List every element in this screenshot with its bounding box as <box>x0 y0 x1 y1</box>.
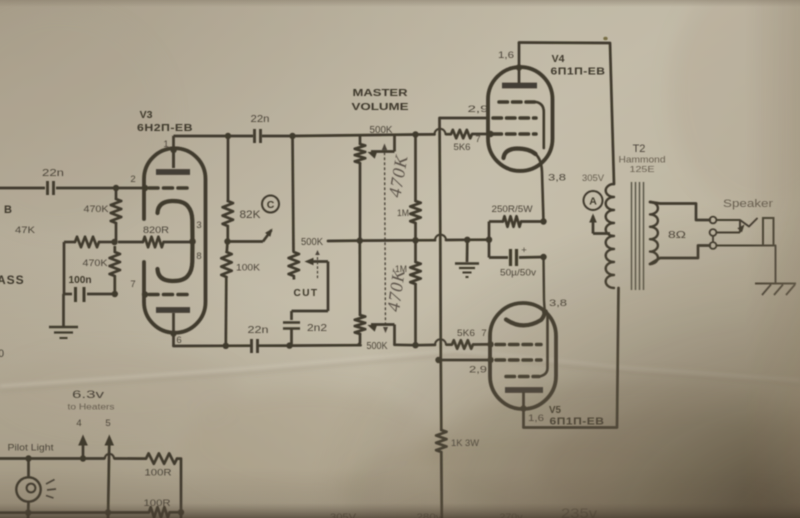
node 100R corner junction <box>178 509 184 515</box>
resistor R 1M lower <box>414 240 417 262</box>
wire V3 plate pin1 to top rail <box>172 136 175 168</box>
wire terminal mid-bottom link <box>712 236 714 242</box>
pilot light symbol <box>16 477 40 501</box>
wire V4 screen 2,9 <box>440 117 490 120</box>
transformer T2 secondary winding <box>650 202 658 264</box>
capacitor C 22n input <box>46 181 49 195</box>
wire mid rail <box>328 239 435 243</box>
wire ground leg 100n <box>62 294 65 326</box>
resistor R 470K lower <box>110 252 120 276</box>
wire bottom terminal to sleeve <box>717 245 764 247</box>
tube V5 cathode arc <box>506 312 545 326</box>
tube V4 envelope <box>488 67 553 171</box>
resistor R 1M upper <box>414 135 417 202</box>
ground symbol mid rail <box>466 240 469 262</box>
node screen line V5 <box>435 357 441 363</box>
wire secondary bottom to terminal <box>650 246 710 265</box>
tube V3 lower plate bar <box>156 307 190 313</box>
heater arrow 4 <box>82 441 85 459</box>
node pin 2 on envelope <box>142 185 148 191</box>
wire V5 bottom to transformer <box>524 288 619 428</box>
node mid rail pot column <box>357 237 363 243</box>
wire bottom rail left <box>174 344 251 347</box>
test point C arrow wire <box>228 240 264 243</box>
wire heater rail <box>0 457 105 460</box>
node pilot bottom junction <box>25 510 31 516</box>
node 82K top <box>225 133 231 139</box>
node top rail 1M branch <box>412 131 418 137</box>
tube V3 envelope <box>144 148 206 332</box>
wire hop over screen line top rail <box>434 129 445 135</box>
tube V3 upper grid dashes <box>149 186 191 190</box>
node bottom rail 100K <box>223 343 229 349</box>
node pin7 junction <box>112 291 118 297</box>
wire bottom rail to 5K6 lower <box>446 343 452 346</box>
resistor R 1K 3W <box>436 430 446 452</box>
wire 47K down leg <box>63 242 66 294</box>
tube V5 envelope <box>490 303 556 409</box>
node V3 pin1 on envelope <box>170 147 176 153</box>
wire V3 pin6 to bottom rail <box>172 313 175 346</box>
tube V5 grid dashes g3 <box>506 375 539 379</box>
wire bottom heater return <box>0 511 149 514</box>
tube V3 lower grid dashes <box>149 293 191 297</box>
ground symbol input stage <box>49 326 78 328</box>
wire V4 top rail to transformer <box>519 43 614 185</box>
speaker jack tip contact <box>717 219 741 221</box>
resistor R 5K6 V5 <box>452 340 473 348</box>
wire CUT branch from top rail <box>293 136 294 252</box>
node cathode column upper <box>540 218 546 224</box>
node pin2 junction <box>113 185 119 191</box>
node V4 pin7 <box>487 131 493 137</box>
tube V5 plate bar <box>505 387 543 393</box>
wire top rail to master volume <box>262 135 293 138</box>
transformer T2 primary winding <box>606 184 614 288</box>
heater arrow 5 <box>108 441 109 518</box>
resistor R 100R upper <box>146 453 177 463</box>
speaker jack sleeve <box>763 218 774 246</box>
node mid rail RC <box>486 237 492 243</box>
test point A arrow <box>592 216 595 234</box>
wire V4 plate to top corner <box>518 43 521 84</box>
resistor R 470K upper grid leak <box>115 188 118 199</box>
wire top rail to 5K6 <box>446 133 452 136</box>
node V5 pin7 <box>487 341 493 347</box>
node mid rail ground <box>464 237 470 243</box>
node V5 pin 2-9 <box>487 357 493 363</box>
capacitor C 2n2 <box>292 310 329 313</box>
wire hop over screen line mid rail <box>435 235 446 241</box>
pot2 wiper arrow <box>371 323 395 326</box>
capacitor C 22n bottom <box>250 339 253 353</box>
resistor R 82K plate load <box>227 136 230 201</box>
gang dotted line <box>385 148 386 330</box>
wire V5 plate pin to bottom wire <box>522 392 525 428</box>
tube V4 plate bar <box>502 83 537 89</box>
node top rail CUT branch <box>289 133 295 139</box>
node heater lower junction <box>105 509 111 515</box>
tube V4 grid dashes g1 <box>493 132 536 136</box>
wire bottom rail right <box>395 343 436 346</box>
node 1M mid rail <box>412 237 418 243</box>
tube V4 cathode exit <box>536 154 544 222</box>
potentiometer 500K CUT <box>289 252 299 276</box>
ground symbol speaker jack <box>755 283 796 285</box>
test point C circle <box>262 196 279 213</box>
potentiometer 500K master volume lower <box>358 241 361 315</box>
tube V3 upper plate bar <box>156 169 190 175</box>
tube V3 upper cathode arc <box>158 201 193 240</box>
tube V5 grid dashes g2 <box>496 358 541 362</box>
node V3 pin6 on envelope <box>170 330 176 336</box>
node pin 7 on envelope <box>142 291 148 297</box>
resistor R 47K feedback <box>99 241 115 244</box>
tube V4 grid dashes g3 <box>499 100 536 104</box>
resistor R 5K6 V4 <box>451 130 472 138</box>
pot1 wiper arrow <box>371 150 395 153</box>
wire bottom rail mid <box>259 344 360 347</box>
terminal circle bottom <box>710 242 717 249</box>
CUT wiper arrow <box>311 260 328 263</box>
node bottom rail 2n2 <box>286 342 292 348</box>
node 82K-100K junction <box>224 238 230 244</box>
transformer T2 core <box>631 182 633 290</box>
test point A circle <box>584 191 603 210</box>
node bottom rail 1M <box>412 342 418 348</box>
node cathode column lower <box>540 254 546 260</box>
terminal circle top <box>710 217 717 224</box>
jack insertion arrow <box>737 225 744 233</box>
node cathode junction 3-8 <box>189 238 196 245</box>
resistor R 100R lower <box>149 507 170 517</box>
capacitor C 22n interstage top <box>253 129 256 143</box>
node heater arrow4 <box>80 455 86 461</box>
capacitor C 50u/50v <box>488 240 491 258</box>
resistor R 820R cathode bias <box>118 241 143 244</box>
tube V5 g3 leg <box>539 315 548 377</box>
wire hop over screen line bottom rail <box>435 339 446 345</box>
potentiometer 500K master volume upper <box>359 136 362 144</box>
paper crease main fold <box>0 350 800 391</box>
tube V5 grid dashes g1 top <box>496 343 541 347</box>
node 47K junction <box>111 239 117 245</box>
tube V5 cathode exit <box>544 257 546 312</box>
wire sleeve to ground <box>774 246 776 284</box>
resistor R 250R/5W <box>488 222 491 240</box>
resistor R 100K <box>225 242 228 253</box>
wire top rail V3 plate to coupling cap <box>174 135 254 138</box>
terminal circle middle <box>710 229 717 236</box>
wire screen line vertical <box>440 118 442 430</box>
tube V3 lower cathode arc <box>158 243 193 281</box>
CUT wiper dashed indicator <box>317 253 319 278</box>
wire input coupling from left edge <box>0 187 45 190</box>
tube V4 grid dashes g2 <box>493 116 536 120</box>
test point C arrowhead <box>265 229 272 237</box>
tube V4 g3 leg <box>536 102 544 148</box>
wire V5 screen 2,9 <box>439 359 491 362</box>
tube V4 cathode arc <box>504 149 536 159</box>
paper speck <box>603 37 607 41</box>
wire secondary top to terminal <box>650 202 710 220</box>
capacitor C 100n <box>64 293 72 296</box>
